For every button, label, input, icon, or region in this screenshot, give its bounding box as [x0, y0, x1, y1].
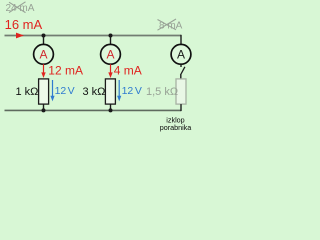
svg-text:3 kΩ: 3 kΩ	[83, 86, 106, 98]
svg-text:4 mA: 4 mA	[114, 64, 142, 78]
svg-text:12V: 12V	[55, 85, 75, 97]
svg-text:12V: 12V	[122, 85, 142, 97]
svg-text:1 kΩ: 1 kΩ	[16, 86, 39, 98]
svg-text:A: A	[106, 47, 114, 61]
svg-text:16 mA: 16 mA	[5, 17, 43, 32]
svg-text:A: A	[177, 47, 185, 61]
svg-text:12 mA: 12 mA	[48, 64, 83, 78]
svg-text:porabnika: porabnika	[160, 123, 192, 132]
svg-text:1,5 kΩ: 1,5 kΩ	[146, 86, 178, 98]
svg-text:A: A	[39, 47, 47, 61]
